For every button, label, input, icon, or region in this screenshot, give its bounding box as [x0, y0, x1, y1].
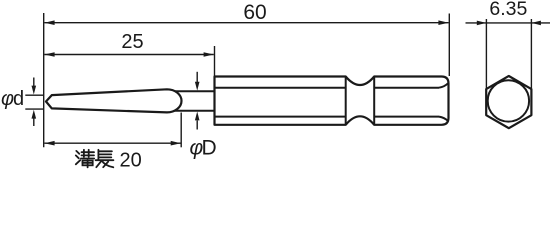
- svg-text:20: 20: [120, 150, 142, 170]
- svg-text:D: D: [202, 137, 217, 160]
- svg-text:d: d: [13, 88, 24, 110]
- svg-text:60: 60: [243, 1, 266, 24]
- svg-text:25: 25: [121, 31, 143, 53]
- svg-text:6.35: 6.35: [489, 0, 527, 20]
